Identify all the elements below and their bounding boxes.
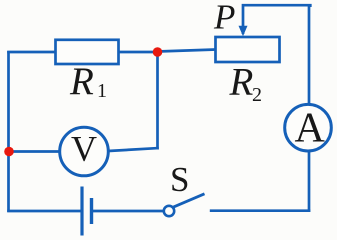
svg-text:S: S xyxy=(170,160,189,199)
wire voltmeter to riser xyxy=(108,148,159,151)
wire left vertical xyxy=(7,51,10,212)
node left red dot xyxy=(4,147,14,157)
wire right vertical bottom xyxy=(308,151,311,212)
wire right vertical top xyxy=(308,5,311,105)
wire riser voltmeter to junction xyxy=(156,52,159,150)
wire R1 right to junction xyxy=(118,51,159,54)
svg-text:1: 1 xyxy=(97,80,107,102)
svg-text:2: 2 xyxy=(252,84,262,106)
switch pivot xyxy=(164,206,174,216)
wire bottom right to switch xyxy=(210,209,310,212)
battery long plate xyxy=(80,187,83,236)
svg-text:V: V xyxy=(71,129,97,169)
battery short plate xyxy=(90,198,93,224)
wire junction to R2 xyxy=(158,50,217,52)
rheostat R2 xyxy=(216,37,280,62)
voltmeter V xyxy=(60,127,109,176)
svg-text:R: R xyxy=(69,60,94,103)
node junction red dot xyxy=(153,47,163,57)
ammeter A xyxy=(285,104,332,151)
svg-text:P: P xyxy=(213,0,235,37)
wire top-left horizontal xyxy=(7,51,56,54)
wiper arrow of R2 xyxy=(239,26,248,37)
switch lever xyxy=(173,194,205,208)
wire wiper top horizontal xyxy=(243,5,310,34)
wire left to battery xyxy=(7,210,82,213)
resistor R1 xyxy=(56,40,119,64)
wire node to voltmeter xyxy=(8,150,60,153)
wire battery to switch pivot xyxy=(92,210,165,213)
svg-text:A: A xyxy=(295,106,326,152)
svg-text:R: R xyxy=(229,61,254,104)
